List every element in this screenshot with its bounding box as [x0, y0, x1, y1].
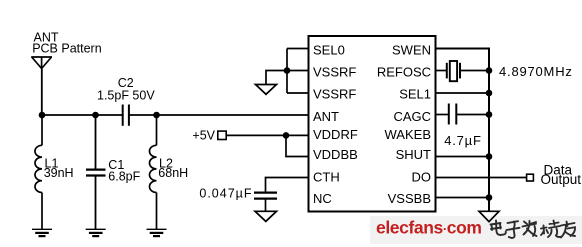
- inductor L2: [150, 115, 157, 229]
- pin SEL0: [287, 43, 345, 58]
- watermark background strip: [370, 216, 582, 244]
- wire right ground bus (SWEN down to ground): [436, 49, 490, 212]
- svg-text:4.8970MHz: 4.8970MHz: [499, 64, 573, 79]
- junction SHUT on bus: [486, 153, 493, 160]
- junction VSSBB on bus: [486, 194, 493, 201]
- svg-text:0.047µF: 0.047µF: [199, 187, 252, 201]
- 电: [491, 221, 506, 236]
- capacitor C3 0.047uF: [254, 193, 277, 199]
- svg-text:CTH: CTH: [313, 170, 340, 185]
- pin VSSRF (1): [287, 65, 356, 80]
- svg-text:VSSBB: VSSBB: [388, 191, 431, 206]
- capacitor C1: [86, 115, 106, 229]
- ground (arrow) for VSSRF: [256, 85, 277, 95]
- junction +5V supply node: [283, 132, 290, 139]
- pin VSSRF (2): [287, 87, 356, 102]
- svg-text:+5V: +5V: [192, 128, 215, 142]
- inductor L1: [35, 115, 42, 229]
- junction REFOSC on bus: [486, 67, 493, 74]
- wire +5V node to VDDBB pin: [286, 135, 309, 156]
- antenna ANT: [31, 57, 52, 69]
- svg-text:CAGC: CAGC: [393, 109, 431, 124]
- wire C3 to ground: [265, 199, 267, 211]
- svg-text:REFOSC: REFOSC: [377, 65, 431, 80]
- wire node A to C2 left plate: [42, 114, 123, 116]
- node C junction (L2 branch): [153, 112, 160, 119]
- svg-text:SHUT: SHUT: [396, 147, 431, 162]
- svg-text:VSSRF: VSSRF: [313, 65, 356, 80]
- pin SEL1: [399, 87, 489, 102]
- ground (earth) under L2: [147, 229, 167, 236]
- node B junction (C1 branch): [92, 112, 99, 119]
- svg-text:SEL1: SEL1: [399, 87, 431, 102]
- terminal Data Output: [527, 174, 534, 181]
- pin VSSBB: [388, 191, 489, 206]
- watermark 电子发烧友 (drawn strokes): [491, 221, 576, 239]
- wire DO pin to Data Output terminal: [436, 177, 527, 179]
- 友: [561, 222, 575, 238]
- wire crystal to bus: [460, 70, 489, 72]
- svg-text:PCB Pattern: PCB Pattern: [32, 41, 102, 55]
- 发: [523, 221, 537, 236]
- svg-text:VDDRF: VDDRF: [313, 127, 358, 142]
- junction CAGC on bus: [486, 111, 493, 118]
- node A junction (antenna / L1 / main wire): [39, 112, 46, 119]
- 子: [507, 221, 520, 238]
- ground (arrow) at bus bottom: [479, 211, 499, 221]
- svg-text:elecfans·com: elecfans·com: [376, 218, 482, 238]
- svg-text:SEL0: SEL0: [313, 43, 345, 58]
- wire C2 right plate to node C and on to ANT pin: [129, 114, 309, 116]
- svg-text:4.7µF: 4.7µF: [444, 133, 482, 148]
- wire VSSRF node to ground arrow: [266, 71, 287, 85]
- capacitor C2: [123, 105, 129, 126]
- wire C4 to bus: [456, 114, 489, 116]
- svg-text:39nH: 39nH: [44, 166, 74, 180]
- svg-text:68nH: 68nH: [158, 166, 188, 180]
- wire CTH pin to capacitor C3: [266, 178, 309, 193]
- junction VSSRF ground node: [284, 67, 291, 74]
- svg-text:ANT: ANT: [313, 109, 339, 124]
- pin SHUT: [396, 147, 489, 162]
- wire CAGC pin to capacitor C4: [436, 114, 449, 116]
- capacitor C4 4.7uF: [449, 104, 457, 125]
- wire antenna feed down to node A: [41, 69, 43, 116]
- ground (arrow) under C3: [255, 211, 277, 221]
- svg-text:DO: DO: [412, 170, 432, 185]
- svg-text:Output: Output: [541, 172, 582, 187]
- svg-text:WAKEB: WAKEB: [385, 127, 431, 142]
- junction SEL1 on bus: [486, 90, 493, 97]
- IC U1 body: [309, 36, 436, 212]
- terminal +5V: [218, 131, 226, 139]
- svg-text:6.8pF: 6.8pF: [108, 169, 140, 183]
- ground (earth) under C1: [86, 229, 106, 236]
- svg-text:NC: NC: [313, 191, 332, 206]
- svg-text:SWEN: SWEN: [392, 43, 431, 58]
- wire REFOSC to crystal: [436, 70, 447, 72]
- crystal Y1: [447, 61, 460, 81]
- svg-text:VSSRF: VSSRF: [313, 87, 356, 102]
- 烧: [541, 221, 561, 238]
- ground (earth) under L1: [32, 229, 52, 236]
- wire VSSRF link (SEL0/VSSRF/VSSRF tie): [286, 49, 288, 94]
- svg-text:1.5pF 50V: 1.5pF 50V: [97, 88, 155, 102]
- svg-text:VDDBB: VDDBB: [313, 147, 358, 162]
- wire +5V to VDDRF pin: [226, 134, 308, 136]
